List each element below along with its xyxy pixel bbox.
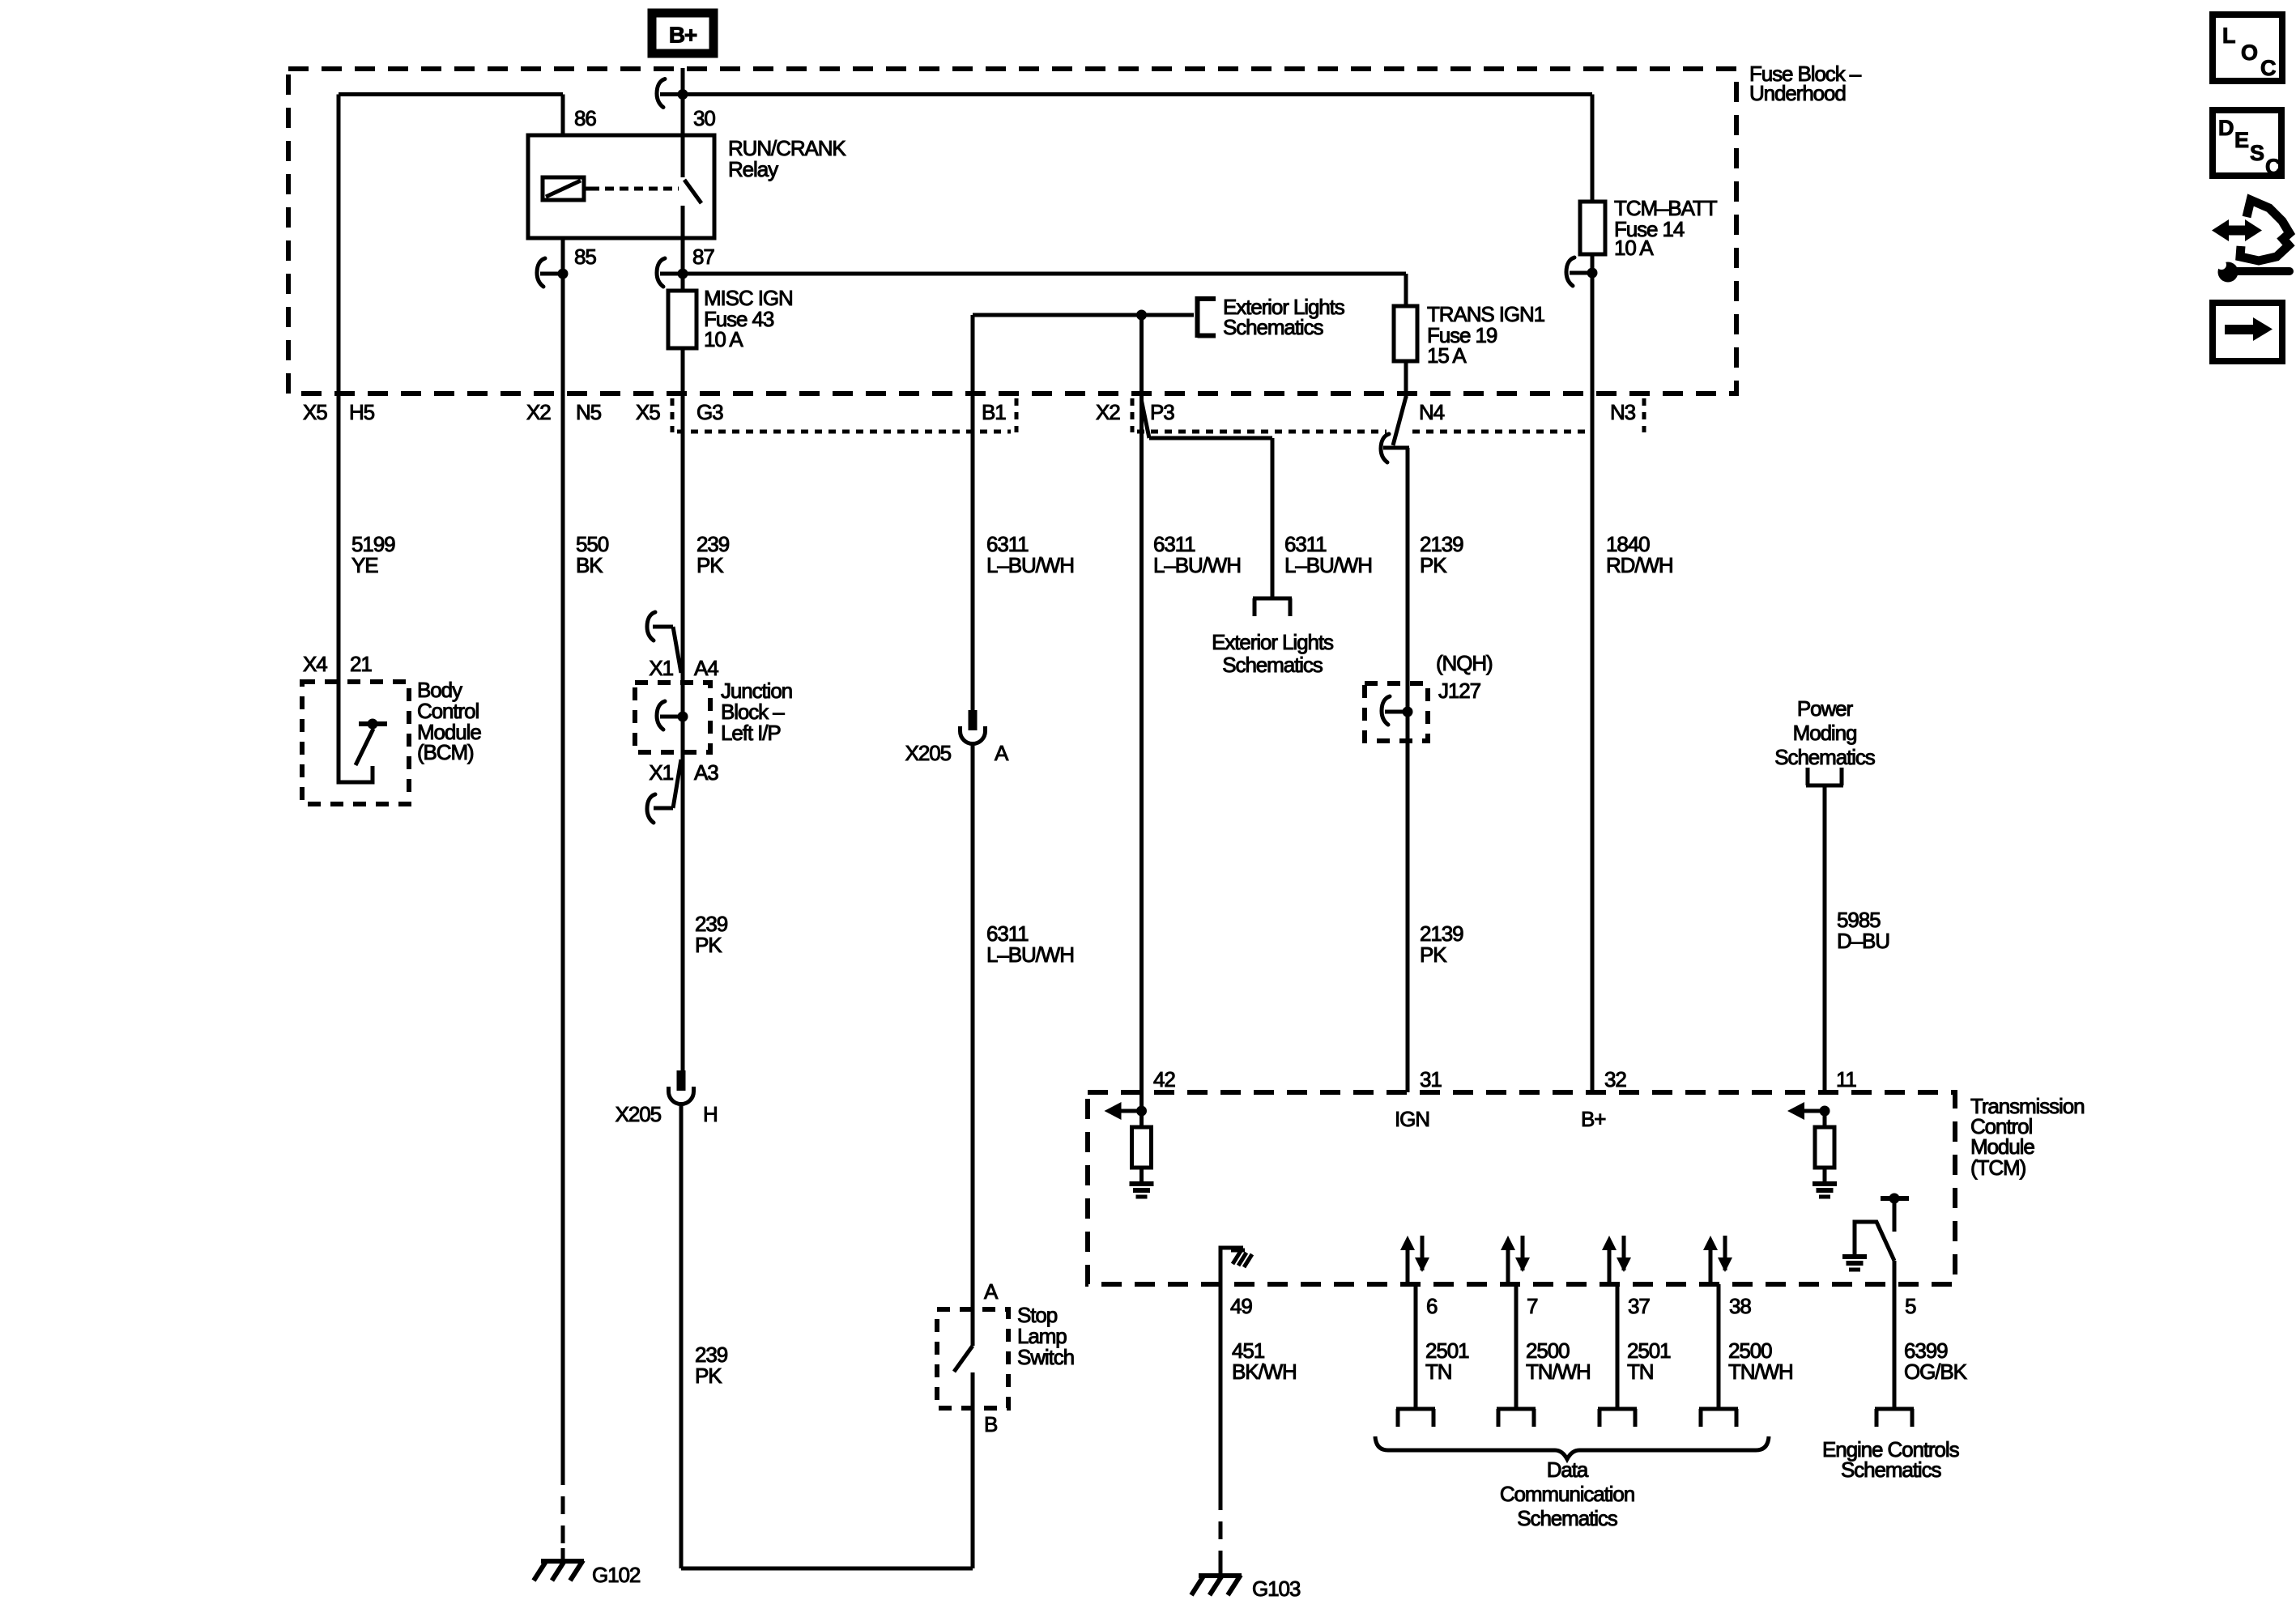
svg-text:L–BU/WH: L–BU/WH bbox=[1284, 553, 1372, 577]
svg-text:OG/BK: OG/BK bbox=[1904, 1360, 1968, 1384]
svg-text:S: S bbox=[2250, 141, 2264, 165]
svg-text:H: H bbox=[703, 1102, 718, 1126]
svg-text:30: 30 bbox=[693, 106, 715, 130]
svg-text:P3: P3 bbox=[1150, 400, 1174, 424]
svg-text:A: A bbox=[984, 1279, 999, 1304]
svg-text:RD/WH: RD/WH bbox=[1606, 553, 1673, 577]
svg-text:PK: PK bbox=[695, 1364, 722, 1388]
svg-text:N3: N3 bbox=[1610, 400, 1636, 424]
svg-text:(BCM): (BCM) bbox=[417, 740, 474, 764]
svg-text:N5: N5 bbox=[576, 400, 602, 424]
svg-text:X4: X4 bbox=[303, 652, 327, 676]
svg-text:TN/WH: TN/WH bbox=[1728, 1360, 1793, 1384]
svg-text:H5: H5 bbox=[349, 400, 375, 424]
svg-text:B1: B1 bbox=[982, 400, 1006, 424]
svg-text:X205: X205 bbox=[616, 1102, 662, 1126]
svg-text:A: A bbox=[995, 741, 1009, 765]
svg-text:Schematics: Schematics bbox=[1841, 1457, 1941, 1482]
svg-text:A4: A4 bbox=[694, 656, 718, 680]
svg-text:87: 87 bbox=[692, 245, 714, 269]
svg-text:B+: B+ bbox=[669, 23, 697, 48]
svg-text:TN: TN bbox=[1627, 1360, 1653, 1384]
svg-text:49: 49 bbox=[1230, 1294, 1252, 1318]
svg-text:X2: X2 bbox=[526, 400, 551, 424]
svg-text:5: 5 bbox=[1905, 1294, 1916, 1318]
svg-text:21: 21 bbox=[350, 652, 372, 676]
svg-text:N4: N4 bbox=[1419, 400, 1445, 424]
svg-text:PK: PK bbox=[1420, 553, 1447, 577]
svg-text:Power: Power bbox=[1797, 696, 1854, 721]
svg-text:Schematics: Schematics bbox=[1222, 653, 1323, 677]
svg-text:42: 42 bbox=[1153, 1067, 1175, 1091]
svg-text:X1: X1 bbox=[649, 656, 673, 680]
svg-text:38: 38 bbox=[1729, 1294, 1751, 1318]
svg-text:X1: X1 bbox=[649, 760, 673, 785]
svg-text:YE: YE bbox=[351, 553, 378, 577]
svg-text:IGN: IGN bbox=[1395, 1107, 1429, 1131]
svg-text:G3: G3 bbox=[696, 400, 723, 424]
svg-text:11: 11 bbox=[1836, 1067, 1856, 1091]
svg-text:TN/WH: TN/WH bbox=[1526, 1360, 1591, 1384]
svg-text:Left I/P: Left I/P bbox=[721, 721, 781, 745]
svg-text:X5: X5 bbox=[636, 400, 660, 424]
svg-text:TN: TN bbox=[1425, 1360, 1451, 1384]
svg-text:Schematics: Schematics bbox=[1517, 1506, 1617, 1530]
svg-text:Moding: Moding bbox=[1793, 721, 1857, 745]
svg-text:31: 31 bbox=[1420, 1067, 1442, 1091]
svg-text:BK/WH: BK/WH bbox=[1232, 1360, 1297, 1384]
svg-text:G102: G102 bbox=[592, 1563, 641, 1587]
svg-text:Underhood: Underhood bbox=[1749, 81, 1846, 105]
svg-text:10 A: 10 A bbox=[704, 327, 743, 351]
svg-text:A3: A3 bbox=[694, 760, 718, 785]
svg-text:L–BU/WH: L–BU/WH bbox=[1153, 553, 1241, 577]
svg-text:D: D bbox=[2218, 116, 2234, 140]
svg-text:X5: X5 bbox=[303, 400, 327, 424]
svg-text:D–BU: D–BU bbox=[1837, 929, 1889, 953]
svg-text:6: 6 bbox=[1426, 1294, 1438, 1318]
svg-text:X2: X2 bbox=[1096, 400, 1120, 424]
svg-text:G103: G103 bbox=[1252, 1577, 1301, 1601]
svg-text:Data: Data bbox=[1547, 1457, 1589, 1482]
svg-text:Exterior Lights: Exterior Lights bbox=[1212, 630, 1334, 654]
svg-text:B: B bbox=[984, 1412, 997, 1436]
svg-text:PK: PK bbox=[1420, 943, 1447, 967]
svg-text:X205: X205 bbox=[905, 741, 952, 765]
svg-text:7: 7 bbox=[1527, 1294, 1538, 1318]
svg-text:C: C bbox=[2260, 56, 2276, 80]
svg-text:J127: J127 bbox=[1438, 679, 1481, 703]
svg-text:Schematics: Schematics bbox=[1223, 315, 1323, 339]
svg-text:E: E bbox=[2234, 128, 2248, 152]
svg-text:10 A: 10 A bbox=[1614, 236, 1654, 260]
svg-text:L: L bbox=[2222, 23, 2235, 48]
svg-text:37: 37 bbox=[1628, 1294, 1650, 1318]
svg-text:32: 32 bbox=[1604, 1067, 1626, 1091]
svg-text:C: C bbox=[2265, 155, 2281, 179]
svg-text:PK: PK bbox=[696, 553, 724, 577]
svg-text:L–BU/WH: L–BU/WH bbox=[986, 943, 1074, 967]
svg-text:L–BU/WH: L–BU/WH bbox=[986, 553, 1074, 577]
svg-text:15 A: 15 A bbox=[1427, 343, 1467, 368]
svg-text:(TCM): (TCM) bbox=[1970, 1155, 2026, 1180]
svg-text:85: 85 bbox=[574, 245, 596, 269]
svg-text:B+: B+ bbox=[1581, 1107, 1605, 1131]
svg-text:Communication: Communication bbox=[1500, 1482, 1634, 1506]
svg-text:Switch: Switch bbox=[1017, 1345, 1074, 1369]
svg-text:BK: BK bbox=[576, 553, 603, 577]
svg-text:O: O bbox=[2241, 40, 2257, 65]
svg-text:Relay: Relay bbox=[728, 157, 778, 181]
svg-text:(NQH): (NQH) bbox=[1436, 651, 1493, 675]
svg-text:Schematics: Schematics bbox=[1774, 745, 1875, 769]
svg-text:PK: PK bbox=[695, 933, 722, 957]
svg-text:86: 86 bbox=[574, 106, 596, 130]
